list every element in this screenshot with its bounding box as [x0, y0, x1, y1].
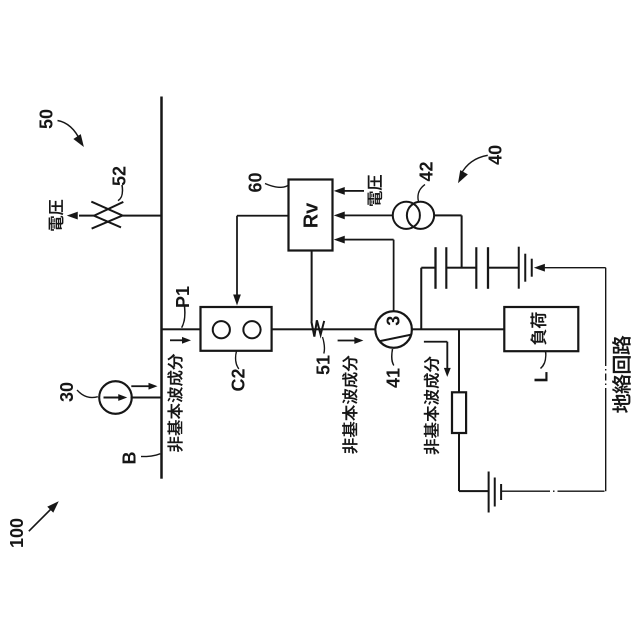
svg-text:30: 30 [57, 382, 77, 402]
capacitor C plate 2 [445, 247, 447, 289]
svg-text:3: 3 [384, 316, 404, 326]
label non-fundamental component 2 [342, 355, 358, 453]
feedback wire Rv to C2 [237, 215, 289, 217]
wire 52 to voltage arrow [79, 215, 94, 217]
leader 52 [118, 185, 123, 201]
arrow inside 30 [104, 397, 120, 399]
wire main to resistor [458, 329, 460, 392]
svg-text:L: L [532, 372, 552, 383]
wire capacitor to ground [488, 267, 519, 269]
flow arrow above C2 [170, 339, 184, 341]
arrow 50 [58, 121, 81, 142]
arrow 40 [461, 155, 488, 175]
arrow 100 [29, 506, 54, 531]
bent flow arrow at resistor branch [424, 341, 447, 343]
svg-text:B: B [120, 452, 140, 465]
label non-fundamental component 3 [424, 356, 440, 454]
wire 52 to bus [123, 215, 162, 217]
svg-text:42: 42 [417, 161, 437, 181]
capacitor C plate 3 [475, 247, 477, 289]
wire 41 to load [412, 328, 504, 330]
squiggle 51 [311, 320, 324, 336]
wire between capacitors [446, 267, 476, 269]
svg-text:51: 51 [314, 355, 334, 375]
wire CT 42 to Rv [345, 214, 393, 216]
flow arrow above 41 [338, 340, 356, 342]
label ground fault circuit [612, 336, 631, 413]
leader 30 [77, 390, 98, 398]
wire 30 to bus [131, 397, 162, 399]
leader P1 [182, 306, 185, 328]
load box L [504, 307, 578, 351]
voltage input arrow to Rv [345, 190, 365, 192]
label voltage (Rv input) [367, 175, 382, 206]
current source 30 [99, 381, 132, 414]
ground symbol (resistor branch) [489, 472, 502, 513]
leader L [541, 351, 546, 368]
wire CT 42 to capacitor midpoint [434, 214, 462, 216]
capacitor C plate 1 [434, 247, 436, 289]
wire Rv to main line [311, 251, 313, 322]
leader 60 [265, 184, 288, 188]
detector 41 circle [375, 311, 412, 348]
ground fault loop arrow to ground [545, 267, 606, 269]
svg-text:P1: P1 [173, 286, 193, 308]
svg-text:60: 60 [246, 172, 266, 192]
svg-text:100: 100 [7, 518, 27, 548]
label load (fuka) [530, 312, 546, 345]
wire C2 to 41 [272, 328, 376, 330]
ground fault loop left vertical [501, 490, 543, 492]
resistor R [452, 392, 466, 433]
svg-text:50: 50 [37, 109, 57, 129]
svg-text:41: 41 [384, 368, 404, 388]
leader 51 [323, 337, 325, 354]
flow arrow at 30 [131, 385, 150, 387]
C2 coil circle 1 [213, 321, 230, 338]
bus line B [160, 97, 163, 479]
ground fault loop bottom horizontal [605, 395, 607, 491]
transformer CT 42 circle 1 [393, 202, 420, 229]
CT sensor C2 box [201, 307, 272, 351]
leader 41 [392, 349, 394, 366]
leader 42 [418, 185, 425, 202]
svg-text:C2: C2 [229, 368, 249, 391]
ground symbol (capacitor branch) [519, 247, 532, 289]
wire junction to capacitor branch [420, 268, 422, 330]
detector 41 chord [380, 335, 411, 342]
transformer CT 42 circle 2 [407, 202, 434, 229]
svg-text:40: 40 [486, 145, 506, 165]
svg-text:Rv: Rv [301, 202, 323, 228]
breaker 52 symbol [91, 202, 123, 229]
wire 41 to Rv [393, 240, 395, 312]
capacitor C plate 4 [487, 247, 489, 289]
svg-text:52: 52 [110, 166, 130, 186]
label voltage (top) [49, 200, 64, 231]
label non-fundamental component 1 [167, 354, 183, 452]
wire resistor to ground [458, 433, 460, 491]
controller Rv box [289, 180, 333, 251]
whole figure drawn unrotated, then rotated 90deg CCW [7, 97, 631, 549]
C2 coil circle 2 [243, 321, 260, 338]
wire bus to C2 [162, 328, 201, 330]
leader B [141, 454, 160, 457]
leader C2 [236, 351, 239, 369]
